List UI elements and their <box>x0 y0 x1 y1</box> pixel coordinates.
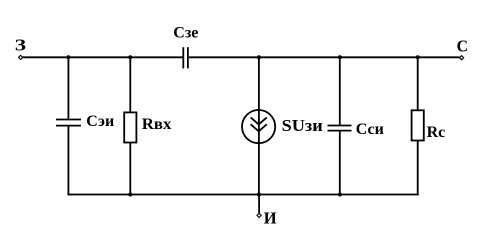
svg-text:З: З <box>15 36 26 55</box>
svg-text:SUзи: SUзи <box>282 116 324 135</box>
svg-text:Сси: Сси <box>356 121 384 138</box>
svg-text:Rс: Rс <box>427 124 446 141</box>
svg-text:С: С <box>457 36 468 55</box>
svg-text:Сзе: Сзе <box>173 25 198 42</box>
svg-text:Rвх: Rвх <box>142 116 172 133</box>
svg-text:И: И <box>264 208 277 227</box>
svg-text:Сэи: Сэи <box>86 113 114 130</box>
